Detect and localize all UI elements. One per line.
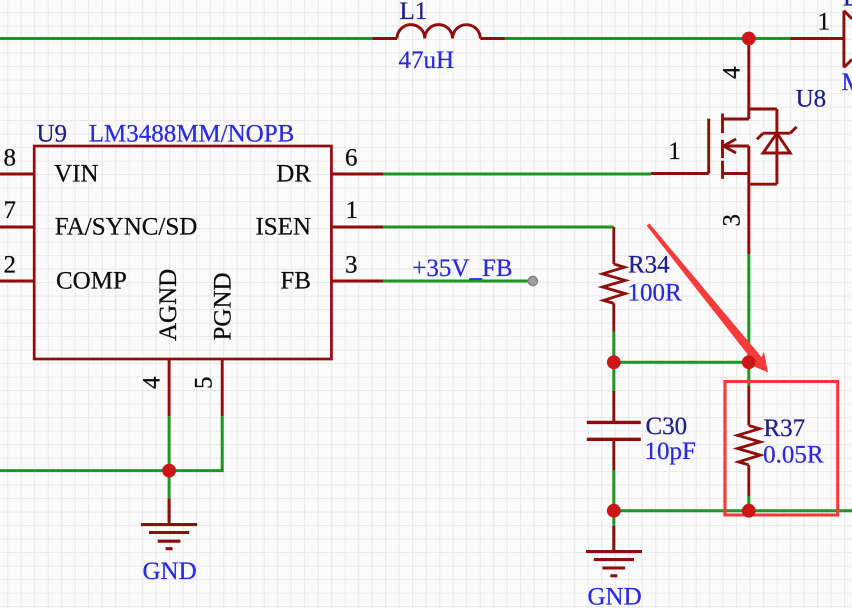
svg-text:R37: R37 <box>764 415 806 442</box>
svg-text:VIN: VIN <box>54 161 98 188</box>
node junction AGND <box>162 464 176 478</box>
svg-text:DR: DR <box>276 161 311 188</box>
ground GND2 <box>586 526 642 576</box>
svg-text:PGND: PGND <box>210 272 237 340</box>
svg-text:L1: L1 <box>400 0 428 25</box>
svg-text:0.05R: 0.05R <box>763 441 824 468</box>
wire DR to gate <box>383 173 651 176</box>
pin 1 lead ISEN <box>332 226 383 229</box>
pin 7 lead FA/SYNC/SD <box>0 226 34 229</box>
pin 2 lead COMP <box>0 280 34 283</box>
no-connect gray dot <box>528 276 537 285</box>
wire source vertical <box>747 254 750 386</box>
svg-text:U8: U8 <box>796 86 827 113</box>
svg-text:1: 1 <box>346 197 359 224</box>
node junction source <box>742 355 756 369</box>
pin 8 lead VIN <box>0 173 34 176</box>
svg-text:AGND: AGND <box>155 269 182 341</box>
svg-text:D: D <box>843 0 852 12</box>
svg-text:FB: FB <box>280 267 311 294</box>
wire PGND down <box>169 416 222 470</box>
diode D (right edge, partial) <box>790 11 852 68</box>
svg-text:4: 4 <box>719 66 746 79</box>
svg-text:5: 5 <box>191 377 218 390</box>
ground GND1 <box>141 498 197 548</box>
inductor L1 <box>372 25 505 39</box>
node junction R37 bottom <box>742 504 756 518</box>
wire FB stub +35V_FB <box>383 280 528 283</box>
svg-text:GND: GND <box>588 583 642 608</box>
svg-text:U9: U9 <box>37 121 68 148</box>
wire C30 bottom <box>612 470 615 511</box>
wire top-left net <box>0 37 372 40</box>
resistor R34 <box>603 227 626 332</box>
wire bottom horizontal <box>614 509 852 512</box>
annotation highlight box around R37 <box>725 382 838 516</box>
pin 6 lead DR <box>332 173 383 176</box>
node junction top <box>742 32 756 46</box>
node junction R34 <box>607 355 621 369</box>
svg-text:6: 6 <box>345 145 358 172</box>
wire mid horizontal <box>614 361 749 364</box>
svg-text:C30: C30 <box>646 413 688 440</box>
svg-text:1: 1 <box>818 9 831 36</box>
svg-text:47uH: 47uH <box>399 47 455 74</box>
svg-text:+35V_FB: +35V_FB <box>412 255 512 282</box>
svg-text:8: 8 <box>4 145 17 172</box>
svg-text:1: 1 <box>668 138 681 165</box>
pin 3 lead FB <box>332 280 383 283</box>
svg-text:2: 2 <box>4 252 17 279</box>
wire GND2 stub <box>612 511 615 526</box>
svg-text:10pF: 10pF <box>645 438 696 465</box>
IC U9 body <box>34 146 331 359</box>
svg-text:100R: 100R <box>628 280 683 307</box>
annotation arrow <box>647 223 768 372</box>
wire R37 bottom <box>747 496 750 511</box>
resistor R37 <box>738 386 761 496</box>
wire bottom-left horizontal <box>0 469 169 472</box>
wire top-mid <box>505 37 791 40</box>
svg-text:FA/SYNC/SD: FA/SYNC/SD <box>55 214 198 241</box>
svg-text:4: 4 <box>139 376 166 389</box>
svg-text:COMP: COMP <box>56 267 127 294</box>
wire C30 top <box>612 362 615 391</box>
wire GND1 stub <box>168 471 171 499</box>
svg-text:3: 3 <box>345 252 358 279</box>
wire AGND down <box>168 416 171 470</box>
svg-text:R34: R34 <box>628 252 670 279</box>
svg-text:M: M <box>842 69 852 96</box>
wire ISEN to R34 <box>383 226 614 229</box>
capacitor C30 <box>587 391 641 470</box>
pin 4 lead AGND <box>168 359 171 416</box>
svg-text:LM3488MM/NOPB: LM3488MM/NOPB <box>89 121 295 148</box>
pin 5 lead PGND <box>221 359 224 416</box>
svg-text:3: 3 <box>719 214 746 227</box>
svg-text:GND: GND <box>143 558 197 585</box>
wire R34 to node <box>612 332 615 363</box>
svg-text:ISEN: ISEN <box>255 214 311 241</box>
svg-text:7: 7 <box>4 197 17 224</box>
node junction C30 bottom <box>607 504 621 518</box>
transistor U8 (NMOS with body diode) <box>651 39 797 255</box>
